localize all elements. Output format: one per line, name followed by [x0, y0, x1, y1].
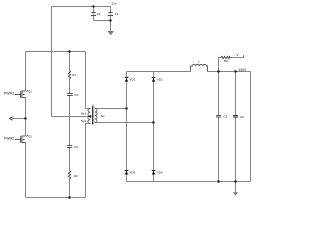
- svg-text:R3: R3: [224, 59, 228, 63]
- svg-text:12v: 12v: [111, 2, 116, 6]
- svg-text:Q1: Q1: [28, 89, 32, 93]
- mosfet Q1: [15, 90, 29, 98]
- node center tap: [89, 115, 91, 117]
- inductor L: [191, 64, 208, 71]
- svg-text:C1: C1: [115, 12, 119, 16]
- wire center-tap feed: [52, 116, 91, 118]
- svg-text:C6: C6: [240, 115, 244, 119]
- port arrow (node A): [10, 117, 13, 120]
- svg-text:R2: R2: [74, 174, 78, 178]
- wire secondary top lead: [95, 108, 127, 110]
- transformer core: [92, 106, 94, 124]
- wire C1 branch top: [110, 7, 112, 13]
- svg-text:Np1: Np1: [81, 112, 87, 116]
- node C6 top: [234, 70, 236, 72]
- wire secondary bottom lead: [95, 122, 154, 124]
- diode VD4: [152, 171, 156, 175]
- wire snubber chain segment 3: [69, 96, 71, 145]
- capacitor C2: [91, 12, 95, 14]
- wire output bottom rail: [127, 181, 251, 183]
- mosfet Q2: [15, 135, 29, 143]
- diode VD3: [125, 171, 129, 175]
- node C5 bottom: [217, 180, 219, 182]
- transformer top tick: [92, 105, 94, 107]
- wire Q1 source to node A: [25, 98, 27, 119]
- capacitor C1: [108, 12, 112, 14]
- transformer T primary winding: [88, 109, 90, 124]
- diode VD1: [125, 78, 129, 82]
- svg-text:PWM1: PWM1: [4, 92, 14, 96]
- node A (port): [24, 117, 26, 119]
- svg-text:R1: R1: [72, 73, 76, 77]
- resistor R3: [221, 56, 230, 58]
- wire node A to Q2 drain: [25, 119, 27, 137]
- wire R3 branch: [219, 58, 244, 72]
- svg-text:VD3: VD3: [130, 171, 136, 175]
- node R2 bottom: [68, 196, 70, 198]
- svg-text:VD2: VD2: [157, 78, 163, 82]
- ground (output): [233, 192, 238, 195]
- wire output top rail right: [208, 71, 251, 73]
- wire 12v feed vertical: [51, 7, 53, 117]
- wire V terminal tick: [243, 55, 245, 58]
- wire snubber chain segment 1: [69, 52, 71, 72]
- wire primary bottom lead + box right edge lower: [86, 124, 91, 198]
- resistor R1: [68, 71, 70, 79]
- wire box right edge upper + primary top lead: [86, 52, 91, 109]
- svg-text:VD4: VD4: [157, 171, 163, 175]
- wire 12v top rail: [52, 6, 111, 8]
- svg-text:Q2: Q2: [28, 134, 32, 138]
- capacitor C6: [233, 115, 238, 117]
- svg-text:V: V: [237, 53, 239, 57]
- wire box top rail: [26, 51, 86, 53]
- wire C6 column: [235, 72, 237, 182]
- ground (input): [107, 31, 114, 35]
- svg-text:Np2: Np2: [81, 119, 87, 123]
- transformer T secondary winding: [95, 109, 97, 123]
- node secondary top: [125, 107, 127, 109]
- svg-text:C3: C3: [74, 93, 78, 97]
- wire output right edge: [250, 72, 252, 182]
- svg-text:C2: C2: [97, 12, 101, 16]
- svg-text:PWM2: PWM2: [4, 137, 14, 141]
- node C5 top: [217, 70, 219, 72]
- wire C1 to ground stem: [110, 16, 112, 31]
- wire snubber chain segment 2: [69, 79, 71, 93]
- capacitor C3: [67, 93, 73, 95]
- svg-text:C5: C5: [223, 115, 227, 119]
- svg-text:Ns: Ns: [101, 114, 105, 118]
- node C2 tap: [92, 5, 94, 7]
- wire left rail to Q1 drain: [25, 52, 27, 92]
- diode VD2: [152, 78, 156, 82]
- node C6 bottom: [234, 180, 236, 182]
- svg-text:C4: C4: [74, 145, 78, 149]
- svg-text:L: L: [198, 60, 200, 64]
- wire Q2 source to bottom rail: [25, 143, 27, 198]
- wire snubber chain segment 5: [69, 179, 71, 198]
- wire diode column 1: [126, 72, 128, 182]
- capacitor C4: [67, 146, 72, 148]
- wire input caps bottom rail: [94, 20, 111, 22]
- wire C2 branch bottom: [93, 16, 95, 21]
- wire port stub: [12, 118, 25, 120]
- svg-text:VD1: VD1: [130, 78, 136, 82]
- node secondary bottom: [152, 121, 154, 123]
- wire diode column 2: [153, 72, 155, 182]
- wire box bottom rail: [26, 197, 86, 199]
- node R1 top: [68, 50, 70, 52]
- wire C5 column: [218, 72, 220, 182]
- wire C2 branch top: [93, 7, 95, 13]
- wire output top rail left: [127, 71, 191, 73]
- wire bottom ground stem: [235, 182, 237, 193]
- capacitor C5: [216, 115, 221, 117]
- resistor R2: [68, 171, 70, 179]
- wire snubber chain segment 4: [69, 148, 71, 171]
- svg-text:400V: 400V: [239, 68, 248, 72]
- node input caps junction: [109, 19, 111, 21]
